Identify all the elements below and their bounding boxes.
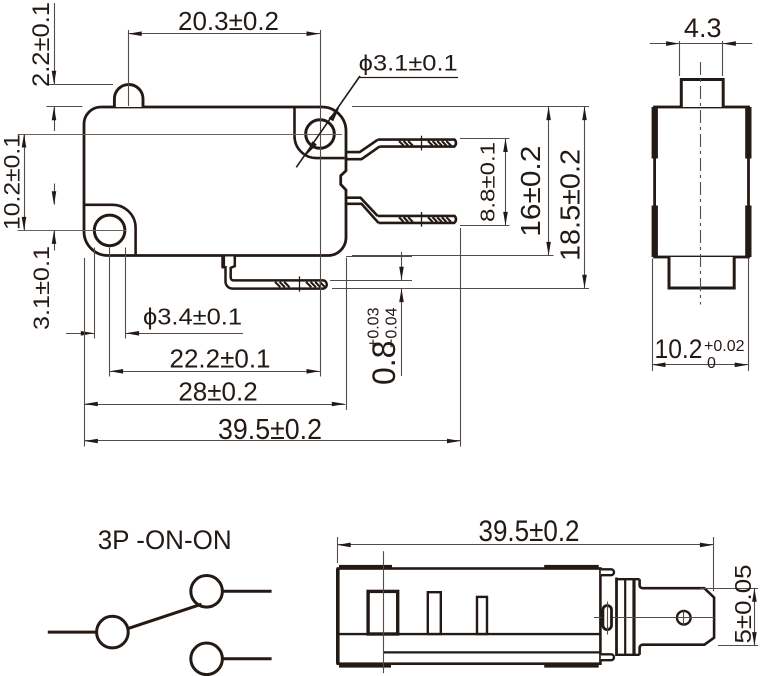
side view body — [655, 107, 749, 257]
detent pill — [603, 606, 612, 630]
bottom view body — [338, 569, 601, 664]
svg-text:ϕ3.1±0.1: ϕ3.1±0.1 — [359, 50, 458, 75]
hatching upper blade — [399, 141, 404, 146]
dim 4.3 — [679, 41, 681, 76]
centre line bottom view — [594, 617, 714, 619]
side ribs — [652, 107, 658, 159]
boss inner line bottom-left — [85, 205, 136, 255]
lower contact circle — [191, 643, 223, 675]
svg-text:+0.02: +0.02 — [704, 338, 745, 355]
plunger axis line — [383, 551, 385, 673]
dim 16 — [352, 106, 589, 108]
dim 0.8 — [346, 256, 412, 258]
svg-text:3P -ON-ON: 3P -ON-ON — [98, 525, 232, 555]
slot 3 — [477, 597, 487, 634]
hatching lower blade — [399, 217, 404, 222]
upper contact circle — [191, 576, 223, 608]
svg-text:2.2±0.1: 2.2±0.1 — [28, 2, 55, 87]
plunger button (2.2 high) — [114, 85, 143, 108]
dim 2.2 — [54, 3, 56, 84]
svg-text:0: 0 — [707, 355, 716, 372]
partition lines — [338, 633, 601, 635]
svg-text:18.5±0.2: 18.5±0.2 — [555, 149, 586, 261]
svg-text:−0.04: −0.04 — [384, 307, 401, 348]
svg-text:39.5±0.2: 39.5±0.2 — [479, 515, 580, 548]
svg-text:22.2±0.1: 22.2±0.1 — [169, 344, 270, 374]
upper contact lead — [223, 590, 272, 593]
svg-text:10.2: 10.2 — [655, 334, 703, 364]
mounting hole bottom-left (phi 3.4) — [94, 215, 125, 246]
plunger slot — [368, 591, 398, 634]
collar lips — [601, 569, 614, 575]
side view button — [681, 80, 723, 108]
blade hole mark lower — [421, 212, 423, 227]
blade hole — [677, 611, 691, 625]
svg-text:10.2±0.1: 10.2±0.1 — [0, 134, 25, 230]
dim 3.1 — [54, 184, 56, 205]
dim 39.5 bottom — [337, 537, 339, 563]
svg-text:39.5±0.2: 39.5±0.2 — [218, 414, 322, 446]
centre line — [700, 62, 702, 305]
terminal NO blade (upper right) — [378, 140, 456, 147]
svg-text:5±0.05: 5±0.05 — [730, 565, 756, 644]
dim phi3.1 leader — [296, 76, 360, 167]
dim 10.2 depth — [652, 259, 654, 372]
bottom view edge ribs — [339, 565, 392, 569]
svg-text:+0.03: +0.03 — [366, 307, 383, 348]
svg-text:20.3±0.2: 20.3±0.2 — [178, 8, 279, 36]
dim 22.2 — [109, 248, 111, 377]
dim phi3.4 — [94, 248, 96, 339]
dim 18.5 — [332, 288, 589, 290]
dim 39.5 front — [460, 228, 462, 447]
svg-text:3.1±0.1: 3.1±0.1 — [29, 246, 54, 330]
collar plate — [615, 578, 618, 657]
side view bottom terminal base — [669, 257, 734, 288]
common contact lead — [48, 631, 97, 634]
dim 5 — [700, 588, 758, 590]
common contact circle — [97, 616, 129, 648]
boss inner line top-right — [294, 108, 344, 158]
lower contact lead — [223, 657, 272, 660]
dim 20.3 extension lines — [128, 30, 130, 106]
moving contact arm — [127, 604, 201, 629]
svg-text:16±0.2: 16±0.2 — [515, 146, 546, 237]
blade hole mark bottom — [299, 276, 301, 291]
dim 20.3 — [128, 33, 320, 35]
mounting hole top-right (phi 3.1) — [306, 120, 335, 149]
svg-text:8.8±0.1: 8.8±0.1 — [477, 142, 499, 222]
svg-text:4.3: 4.3 — [684, 13, 722, 43]
dim 8.8 — [460, 138, 510, 140]
hatching bottom blade — [275, 282, 280, 287]
terminal COM blade (bottom) — [223, 257, 327, 289]
switch body outline (front view) — [84, 107, 346, 256]
slot 2 — [428, 592, 441, 634]
dim 10.2 (hole pitch vertical) — [18, 134, 343, 136]
svg-text:ϕ3.4±0.1: ϕ3.4±0.1 — [143, 304, 242, 330]
actuator blade (bottom view) — [640, 579, 715, 655]
blade hole mark upper — [421, 136, 423, 151]
svg-text:28±0.2: 28±0.2 — [178, 376, 257, 406]
terminal NC blade (lower right) — [378, 216, 456, 223]
dim 28 — [84, 258, 86, 447]
